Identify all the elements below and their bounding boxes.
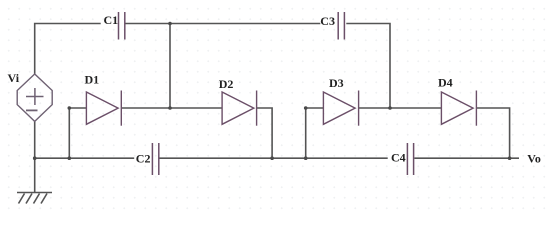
svg-text:D3: D3: [329, 76, 344, 90]
wire: top-left vertical from Vi top up and right to C1 label: [35, 24, 101, 75]
wire: top rail C3 right plate to corner, down to D3/D4 junction: [346, 24, 390, 109]
svg-text:C4: C4: [391, 150, 406, 164]
capacitor C3: [338, 12, 344, 40]
node: top rail tap to D1/D2: [168, 22, 172, 26]
svg-text:Vi: Vi: [8, 71, 20, 85]
svg-text:D4: D4: [438, 76, 453, 90]
node: D3 anode corner: [304, 106, 308, 110]
node: D1 cathode / D2 anode tap: [168, 106, 172, 110]
node: D3 cathode / D4 anode tap: [388, 106, 392, 110]
svg-text:C3: C3: [320, 14, 335, 28]
diode D4: [441, 91, 476, 126]
capacitor C4: [407, 143, 413, 175]
node: ground rail at D1 anode: [68, 156, 72, 160]
svg-text:C2: C2: [136, 152, 151, 166]
node: D1 anode corner: [68, 106, 72, 110]
wire: D3 cathode to D4 anode: [359, 107, 442, 109]
svg-text:C1: C1: [104, 13, 119, 27]
wire: top rail C1 right plate to C3 label: [125, 23, 320, 25]
diode D1: [86, 91, 121, 126]
capacitor C1: [119, 12, 125, 40]
wire: bottom rail up at x306 to D3 anode: [306, 108, 324, 158]
svg-text:D1: D1: [85, 73, 100, 87]
wire: bottom rail from Vi drop to C2 label: [35, 157, 135, 159]
wire: bottom rail C4 right plate to Vo stub end: [414, 157, 519, 159]
diode D2: [222, 91, 257, 126]
node: ground rail at Vi: [33, 156, 37, 160]
wire: vertical from top rail down to D1/D2 junction: [169, 24, 171, 109]
wire: D2 cathode corner down to bottom rail: [257, 108, 273, 158]
svg-text:Vo: Vo: [527, 151, 541, 165]
diode D3: [323, 91, 358, 126]
source Vi: [17, 74, 52, 121]
node: bottom rail at D3 anode: [304, 156, 308, 160]
wire: D1 anode corner to bottom rail: [69, 108, 86, 158]
wire: D1 cathode to D2 anode: [121, 107, 222, 109]
wire: D4 cathode right then down to bottom rail: [476, 108, 509, 158]
node: bottom rail at Vo corner: [508, 156, 512, 160]
wire: bottom rail C2 right plate to C4 label: [160, 157, 388, 159]
capacitor C2: [152, 143, 158, 175]
svg-text:D2: D2: [219, 77, 234, 91]
node: bottom rail at D2 cathode: [270, 156, 274, 160]
wire: Vi bottom down through bottom rail to ground: [34, 121, 36, 192]
ground: [17, 193, 52, 204]
